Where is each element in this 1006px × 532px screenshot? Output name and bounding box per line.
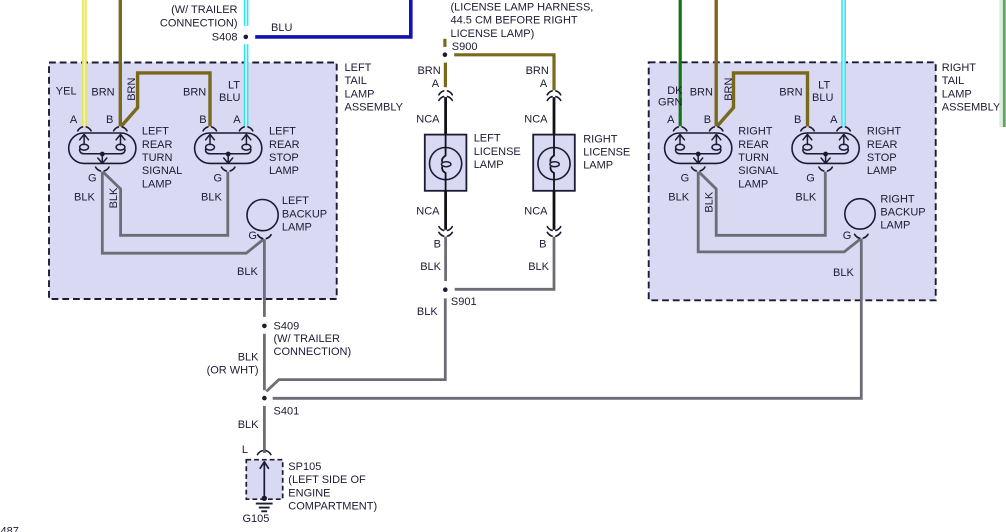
- svg-text:G: G: [214, 172, 223, 184]
- connector pin A left turn: [78, 127, 91, 131]
- label LEFT BACKUP LAMP: [282, 195, 327, 233]
- ground G105: [256, 504, 273, 512]
- svg-text:L: L: [242, 444, 248, 456]
- svg-text:(W/ TRAILER: (W/ TRAILER: [274, 333, 340, 345]
- svg-text:S409: S409: [274, 320, 300, 332]
- label LEFT TAIL LAMP ASSEMBLY: [345, 62, 404, 114]
- wire BLK S409 to S401: [263, 334, 266, 390]
- label BLK (OR WHT): [207, 352, 260, 377]
- lamp RIGHT BACKUP LAMP: [845, 199, 875, 229]
- wire BRN S900 to right license A: [454, 55, 554, 90]
- svg-text:BLK: BLK: [238, 352, 259, 364]
- svg-text:ASSEMBLY: ASSEMBLY: [345, 102, 404, 114]
- connector pair at left license B: [439, 227, 452, 231]
- wire BLK right turn G to right stop G: [699, 172, 826, 236]
- svg-text:G: G: [843, 230, 852, 242]
- svg-text:SIGNAL: SIGNAL: [738, 165, 778, 177]
- svg-text:REAR: REAR: [142, 139, 173, 151]
- svg-text:RIGHT: RIGHT: [867, 126, 902, 138]
- svg-text:BRN: BRN: [690, 86, 713, 98]
- svg-text:BACKUP: BACKUP: [880, 207, 925, 219]
- svg-text:BLK: BLK: [795, 191, 816, 203]
- lamp RIGHT REAR TURN SIGNAL LAMP: [665, 133, 732, 163]
- svg-text:NCA: NCA: [416, 206, 440, 218]
- clipped green wire at right edge: [999, 0, 1004, 127]
- svg-text:G: G: [88, 172, 97, 184]
- svg-text:B: B: [539, 238, 546, 250]
- svg-text:LICENSE: LICENSE: [583, 147, 630, 159]
- svg-text:G: G: [806, 172, 815, 184]
- svg-text:ENGINE: ENGINE: [288, 487, 330, 499]
- splice pack SP105 box: [246, 460, 282, 500]
- svg-text:REAR: REAR: [269, 139, 300, 151]
- svg-text:A: A: [540, 78, 548, 90]
- svg-text:(W/ TRAILER: (W/ TRAILER: [171, 4, 237, 16]
- connector pin G right turn: [692, 167, 705, 171]
- svg-text:BLK: BLK: [74, 191, 95, 203]
- svg-text:RIGHT: RIGHT: [880, 193, 915, 205]
- svg-text:LAMP: LAMP: [880, 220, 910, 232]
- svg-text:(LEFT SIDE OF: (LEFT SIDE OF: [288, 474, 366, 486]
- svg-text:REAR: REAR: [867, 139, 898, 151]
- label RIGHT LICENSE LAMP: [583, 133, 630, 171]
- wire NCA right license upper: [553, 97, 556, 135]
- wire BLK left backup G down to S409: [263, 239, 266, 317]
- connector pin G left turn: [96, 167, 109, 171]
- svg-text:DK: DK: [667, 85, 683, 97]
- svg-text:B: B: [794, 114, 801, 126]
- svg-text:BLK: BLK: [704, 191, 716, 212]
- svg-text:BRN: BRN: [417, 65, 440, 77]
- wire BLK S901 to S401 bend: [266, 298, 445, 391]
- svg-text:TURN: TURN: [142, 152, 173, 164]
- svg-text:LAMP: LAMP: [583, 160, 613, 172]
- label LEFT REAR TURN SIGNAL LAMP: [142, 126, 182, 191]
- svg-text:BRN: BRN: [183, 86, 206, 98]
- wire BLK S401 to SP105: [263, 406, 266, 453]
- wire YEL (left turn signal feed): [82, 0, 87, 126]
- label RIGHT REAR TURN SIGNAL LAMP: [738, 126, 778, 191]
- svg-text:BLK: BLK: [417, 306, 438, 318]
- svg-text:B: B: [434, 238, 441, 250]
- svg-text:COMPARTMENT): COMPARTMENT): [288, 501, 377, 513]
- label DK GRN: [658, 85, 683, 109]
- wire BRN loop right turn B to right stop B: [717, 73, 808, 127]
- svg-text:LICENSE LAMP): LICENSE LAMP): [451, 28, 535, 40]
- label RIGHT REAR STOP LAMP: [867, 126, 902, 178]
- label RIGHT BACKUP LAMP: [880, 193, 925, 231]
- svg-text:G: G: [681, 172, 690, 184]
- svg-text:BLU: BLU: [271, 22, 292, 34]
- svg-text:RIGHT: RIGHT: [738, 126, 773, 138]
- note (W/ TRAILER CONNECTION) S408: [160, 4, 238, 43]
- svg-text:STOP: STOP: [867, 152, 897, 164]
- connector L at SP105: [258, 451, 271, 455]
- connector pin B left stop: [203, 127, 216, 131]
- svg-text:BLU: BLU: [812, 92, 833, 104]
- svg-text:LAMP: LAMP: [345, 88, 375, 100]
- svg-text:LAMP: LAMP: [942, 88, 972, 100]
- label RIGHT TAIL LAMP ASSEMBLY: [942, 62, 1001, 114]
- svg-text:BLK: BLK: [420, 261, 441, 273]
- svg-text:BRN: BRN: [779, 86, 802, 98]
- svg-text:S408: S408: [212, 31, 238, 43]
- svg-text:LAMP: LAMP: [474, 159, 504, 171]
- svg-text:BRN: BRN: [91, 86, 114, 98]
- svg-text:A: A: [830, 114, 838, 126]
- svg-text:LICENSE: LICENSE: [474, 146, 521, 158]
- wire BLK right license B to S901: [455, 237, 554, 290]
- splice S900: [443, 52, 448, 57]
- connector pin A right stop: [837, 127, 850, 131]
- junction dot at G105: [262, 496, 267, 501]
- svg-text:RIGHT: RIGHT: [942, 62, 977, 74]
- svg-text:LT: LT: [228, 80, 240, 92]
- svg-text:LEFT: LEFT: [345, 62, 372, 74]
- label LEFT REAR STOP LAMP: [269, 126, 300, 178]
- svg-text:STOP: STOP: [269, 152, 299, 164]
- svg-text:A: A: [70, 114, 78, 126]
- svg-text:LAMP: LAMP: [738, 178, 768, 190]
- svg-text:ASSEMBLY: ASSEMBLY: [942, 102, 1001, 114]
- svg-text:LAMP: LAMP: [269, 165, 299, 177]
- connector pin B right turn: [710, 127, 723, 131]
- svg-text:LEFT: LEFT: [282, 195, 309, 207]
- connector pin G left backup: [258, 235, 271, 239]
- label LEFT LICENSE LAMP: [474, 133, 521, 171]
- svg-text:44.5 CM BEFORE RIGHT: 44.5 CM BEFORE RIGHT: [451, 15, 578, 27]
- wire BRN loop left turn B to left stop B: [121, 73, 210, 127]
- wire BLK left turn G to left backup G: [102, 172, 264, 254]
- svg-text:LAMP: LAMP: [867, 165, 897, 177]
- label LT BLU (right stop A): [812, 80, 833, 104]
- right tail lamp assembly box: [649, 62, 936, 300]
- svg-text:NCA: NCA: [524, 206, 548, 218]
- wire NCA left license lower: [444, 191, 447, 230]
- splice S901: [443, 287, 448, 292]
- connector pin B right stop: [801, 127, 814, 131]
- wire DK GRN (right turn feed): [679, 0, 682, 126]
- connector pair at right license A: [547, 91, 560, 95]
- svg-text:TAIL: TAIL: [942, 75, 964, 87]
- wire LT BLU (left stop) lower segment: [244, 44, 249, 126]
- svg-text:(OR WHT): (OR WHT): [207, 365, 259, 377]
- connector pair at right license B: [547, 227, 560, 231]
- wire BRN above S900: [443, 39, 446, 47]
- svg-text:LAMP: LAMP: [142, 178, 172, 190]
- note (LICENSE LAMP HARNESS, 44.5 CM BEFORE RIGHT LICENSE LAMP) S900: [451, 1, 594, 53]
- svg-text:BACKUP: BACKUP: [282, 208, 327, 220]
- svg-text:BLK: BLK: [668, 191, 689, 203]
- wire BRN (left tail feed): [119, 0, 122, 126]
- svg-text:LEFT: LEFT: [142, 126, 169, 138]
- splice pack SP105 arrow: [260, 462, 269, 499]
- svg-text:TAIL: TAIL: [345, 75, 367, 87]
- svg-text:S401: S401: [274, 406, 300, 418]
- wire LT BLU (right stop feed): [841, 0, 846, 126]
- lamp LEFT BACKUP LAMP: [247, 200, 278, 231]
- label SP105 (LEFT SIDE OF ENGINE COMPARTMENT): [288, 461, 377, 513]
- connector pin G left stop: [222, 167, 235, 171]
- svg-text:SIGNAL: SIGNAL: [142, 165, 182, 177]
- label LT BLU (left stop A): [219, 80, 240, 104]
- connector pair at left license A: [439, 91, 452, 95]
- svg-text:TURN: TURN: [738, 152, 769, 164]
- svg-text:LAMP: LAMP: [282, 222, 312, 234]
- lamp RIGHT LICENSE LAMP: [533, 135, 575, 191]
- lamp RIGHT REAR STOP LAMP: [792, 133, 859, 163]
- wire LT BLU (left stop) upper segment: [244, 0, 249, 26]
- connector pin A right turn: [674, 127, 687, 131]
- wire BLK left license B to S901: [444, 237, 447, 281]
- svg-text:B: B: [704, 114, 711, 126]
- wire BRN (right tail feed): [715, 0, 718, 126]
- splice S409: [262, 324, 267, 329]
- svg-text:BLK: BLK: [201, 191, 222, 203]
- lamp LEFT LICENSE LAMP: [425, 135, 467, 191]
- svg-text:BLU: BLU: [219, 92, 240, 104]
- lamp LEFT REAR STOP LAMP: [195, 133, 262, 163]
- svg-text:BLK: BLK: [833, 267, 854, 279]
- svg-text:LEFT: LEFT: [474, 133, 501, 145]
- svg-text:BLK: BLK: [238, 419, 259, 431]
- svg-text:LT: LT: [818, 80, 830, 92]
- svg-text:BLK: BLK: [528, 261, 549, 273]
- svg-text:NCA: NCA: [416, 113, 440, 125]
- svg-text:NCA: NCA: [524, 113, 548, 125]
- svg-text:A: A: [667, 114, 675, 126]
- label S409 (W/ TRAILER CONNECTION): [274, 320, 352, 358]
- svg-text:SP105: SP105: [288, 461, 321, 473]
- svg-text:BLK: BLK: [108, 187, 120, 208]
- wire BRN S900 to left license A: [444, 63, 447, 88]
- svg-text:B: B: [106, 114, 113, 126]
- splice S408: [244, 35, 249, 40]
- splice S401: [262, 396, 267, 401]
- lamp LEFT REAR TURN SIGNAL LAMP: [69, 133, 136, 163]
- svg-text:BLK: BLK: [237, 266, 258, 278]
- wire BLU (trailer connection): [255, 0, 411, 37]
- svg-text:GRN: GRN: [658, 96, 683, 108]
- connector pin G right backup: [855, 234, 868, 238]
- svg-text:G105: G105: [243, 513, 270, 525]
- left tail lamp assembly box: [49, 63, 337, 300]
- wire NCA left license upper: [444, 97, 447, 135]
- svg-text:B: B: [199, 114, 206, 126]
- svg-text:BRN: BRN: [526, 65, 549, 77]
- svg-text:YEL: YEL: [56, 85, 77, 97]
- svg-text:S901: S901: [451, 296, 477, 308]
- wire NCA right license lower: [553, 191, 556, 230]
- svg-text:RIGHT: RIGHT: [583, 133, 618, 145]
- svg-text:CONNECTION): CONNECTION): [160, 18, 238, 30]
- connector pin B left turn: [114, 127, 127, 131]
- svg-text:G: G: [248, 230, 257, 242]
- svg-text:A: A: [233, 114, 241, 126]
- svg-text:A: A: [432, 78, 440, 90]
- svg-text:REAR: REAR: [738, 139, 769, 151]
- wire BLK left turn G to left stop G: [103, 172, 228, 236]
- connector pin A left stop: [239, 127, 252, 131]
- svg-text:(LICENSE LAMP HARNESS,: (LICENSE LAMP HARNESS,: [451, 1, 594, 13]
- connector pin G right stop: [819, 167, 832, 171]
- svg-text:S900: S900: [452, 41, 478, 53]
- svg-text:CONNECTION): CONNECTION): [274, 346, 352, 358]
- wire BLK right turn G to right backup G: [698, 172, 861, 252]
- wire BLK right backup G to S401: [273, 239, 862, 398]
- svg-text:487: 487: [1, 526, 19, 532]
- svg-text:LEFT: LEFT: [269, 126, 296, 138]
